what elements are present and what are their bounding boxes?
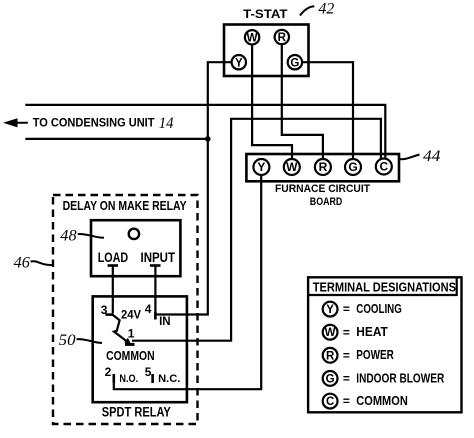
node junction dot Y/condensing [205,136,211,142]
svg-text:W: W [325,327,336,339]
terminal 5 tick [151,374,154,383]
svg-text:G: G [326,373,335,385]
terminal R (t-stat) [275,30,289,44]
legend terminal G [323,370,445,386]
leader 46 [31,261,53,265]
leader 48 [78,234,104,238]
svg-text:=: = [343,394,350,408]
svg-text:R: R [278,32,287,44]
svg-text:COMMON: COMMON [356,393,408,408]
svg-text:Y: Y [235,57,243,69]
leader 50 [77,339,102,343]
svg-text:=: = [343,325,350,339]
leader 44 [399,155,420,160]
svg-text:N.O.: N.O. [119,373,138,385]
svg-text:T-STAT: T-STAT [243,9,287,21]
furnace circuit board box U44 [246,154,399,181]
svg-text:DELAY ON MAKE RELAY: DELAY ON MAKE RELAY [63,199,188,213]
dashed enclosure 46 [53,195,198,424]
svg-text:COOLING: COOLING [356,301,402,316]
terminal R (furnace) [315,159,331,175]
svg-text:SPDT RELAY: SPDT RELAY [102,405,171,420]
svg-text:W: W [286,160,298,174]
wire T-STAT R to furnace R [282,44,323,159]
svg-text:TO CONDENSING UNIT: TO CONDENSING UNIT [33,118,155,130]
svg-text:1: 1 [128,327,135,341]
terminal tick INPUT [150,264,161,267]
delay-on-make relay box U48 [91,220,180,276]
svg-text:14: 14 [159,115,174,132]
svg-text:50: 50 [59,332,76,349]
terminal W (t-stat) [245,30,259,44]
svg-text:R: R [326,350,335,362]
svg-text:HEAT: HEAT [356,324,388,339]
T-STAT box U42 [224,25,309,77]
svg-text:24V: 24V [121,309,141,321]
wire relay COMMON to furnace C [132,119,381,341]
terminal Y (furnace) [253,159,269,175]
wire condensing line 2 [25,138,208,140]
terminal C (furnace) [376,159,392,175]
svg-text:R: R [319,160,328,174]
indicator circle on relay 48 [129,229,139,239]
legend box TERMINAL DESIGNATIONS [308,277,461,412]
svg-text:N.C.: N.C. [158,373,180,385]
terminal Y (t-stat) [232,55,246,69]
terminal 2 tick [113,374,116,383]
svg-text:C: C [379,160,388,174]
svg-text:42: 42 [319,0,335,17]
arrow to condensing unit [9,122,28,124]
switch arm (zigzag) with arrowhead [113,315,128,342]
wire relay N.O. to furnace Y [114,175,261,389]
legend terminal C [323,393,408,408]
legend terminal R [323,347,395,362]
svg-text:IN: IN [159,316,171,328]
svg-text:Y: Y [257,160,265,174]
svg-text:LOAD: LOAD [98,250,129,265]
svg-text:C: C [326,396,334,408]
svg-text:=: = [343,372,350,386]
wire T-STAT G to furnace G [302,62,353,159]
wire T-STAT W to furnace W [252,45,292,160]
terminal tick LOAD [108,264,118,267]
svg-text:G: G [348,160,357,174]
svg-text:COMMON: COMMON [106,349,155,363]
svg-text:FURNACE CIRCUIT: FURNACE CIRCUIT [275,183,370,195]
terminal 3 tick [106,313,114,316]
svg-text:5: 5 [145,365,152,379]
legend terminal Y [323,301,402,317]
wire condensing line 1 (to C) [25,105,385,159]
svg-text:BOARD: BOARD [310,196,343,208]
svg-text:46: 46 [14,255,30,272]
svg-text:G: G [290,57,299,69]
legend terminal W [323,324,388,340]
wire LOAD to terminal 3 [112,266,114,314]
svg-text:TERMINAL DESIGNATIONS: TERMINAL DESIGNATIONS [313,279,456,294]
terminal G (t-stat) [288,55,302,69]
svg-text:=: = [343,302,350,316]
svg-text:INPUT: INPUT [141,250,176,265]
terminal 1 bar (common contact) [125,343,135,346]
terminal G (furnace) [345,159,361,175]
svg-text:44: 44 [423,148,440,165]
wire T-STAT Y to IN (node Y net) [156,62,232,314]
SPDT relay box U50 [93,296,187,402]
legend header box [308,277,457,295]
svg-text:2: 2 [105,365,112,379]
svg-text:POWER: POWER [356,347,394,362]
wire INPUT to terminal 4 [154,266,156,319]
svg-text:Y: Y [326,304,334,316]
svg-text:=: = [343,348,350,362]
terminal W (furnace) [284,159,300,175]
svg-text:W: W [247,32,258,44]
svg-text:INDOOR BLOWER: INDOOR BLOWER [356,370,444,385]
leader 42 [300,6,314,15]
svg-text:48: 48 [60,228,76,245]
svg-text:4: 4 [145,302,152,316]
terminal 4 tick [154,312,157,320]
